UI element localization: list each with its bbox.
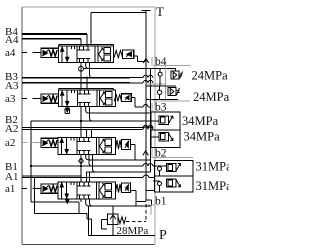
wire T feed V4 bbox=[90, 13, 92, 45]
block boundary left/bottom bbox=[22, 7, 155, 245]
wire pilot dashed main relief bbox=[145, 204, 147, 222]
svg-text:24MPa: 24MPa bbox=[193, 90, 229, 104]
valve V1 position-1 arrows bbox=[60, 182, 74, 199]
wire A2 double bbox=[22, 128, 143, 130]
wire B3 hops over T and P bbox=[143, 75, 153, 77]
node T arrow up bbox=[143, 59, 149, 64]
svg-text:24MPa: 24MPa bbox=[192, 68, 229, 82]
svg-text:a1: a1 bbox=[5, 183, 15, 195]
wire P port line bbox=[89, 235, 155, 237]
wire elbow V2 drain 1 bbox=[86, 155, 89, 160]
wire b1 hook bbox=[146, 200, 152, 206]
svg-text:b1: b1 bbox=[155, 195, 167, 207]
wire B4 bbox=[22, 33, 87, 35]
wire relief RV1b feed bbox=[153, 180, 160, 182]
svg-text:A1: A1 bbox=[5, 171, 18, 183]
wire bottom link 1 bbox=[31, 202, 79, 213]
junction dot A3 bbox=[80, 82, 82, 84]
wire bottom link 2 bbox=[35, 213, 92, 235]
valve V3 position-3 paths bbox=[100, 91, 113, 106]
wire tank elbow bbox=[136, 201, 146, 203]
wire a1 pilot dashed bbox=[22, 187, 41, 189]
valve V2 position-3 paths bbox=[99, 138, 112, 154]
valve V4 position-3 paths bbox=[98, 47, 111, 62]
svg-text:a4: a4 bbox=[5, 47, 16, 59]
wire elbow V2 drain 2 bbox=[89, 155, 92, 167]
svg-text:34MPa: 34MPa bbox=[184, 130, 221, 144]
wire A2 hops bbox=[143, 125, 153, 127]
wire B3 drop bbox=[86, 78, 88, 91]
valve V1 body bbox=[58, 182, 116, 199]
wire V1 cap step down bbox=[131, 191, 136, 207]
svg-text:34MPa: 34MPa bbox=[182, 114, 219, 128]
wire bus stubs to V1 bbox=[86, 172, 89, 182]
wire B1 bbox=[31, 165, 167, 167]
wire bridge V3 bbox=[59, 89, 114, 91]
spring V2 bbox=[116, 140, 122, 149]
wire A1 double bbox=[22, 176, 155, 178]
wire tank branch b1 bbox=[146, 190, 154, 192]
drain arrow V3 bbox=[65, 106, 70, 113]
wire bus S3 bbox=[89, 112, 151, 114]
casing below b1 bbox=[148, 205, 155, 215]
drain arrow V1 bbox=[66, 199, 69, 203]
wire A1 hop over T bbox=[143, 175, 149, 177]
valve V2 body bbox=[58, 138, 116, 155]
node junction circle A4 gallery bbox=[79, 66, 84, 71]
wire V3 cap step to P bbox=[131, 98, 150, 107]
svg-text:31MPa: 31MPa bbox=[196, 179, 230, 193]
block boundary top/right bbox=[22, 7, 155, 245]
node diamond junction bbox=[79, 158, 84, 164]
wire main relief feed bbox=[112, 206, 114, 236]
valve V4 position-2 blocked ports bbox=[77, 46, 90, 62]
node T gallery box bbox=[91, 13, 146, 45]
relief valve RV4b 24MPa bbox=[146, 86, 180, 100]
junction dot B3 bbox=[80, 77, 82, 79]
wire a3 pilot dashed bbox=[22, 97, 41, 99]
pilot valve a2 bbox=[41, 138, 58, 147]
wire elbow V4 drain 2 bbox=[90, 62, 93, 77]
wire B1 hops bbox=[143, 164, 153, 166]
spring V4 bbox=[114, 51, 123, 58]
valve V3 position-2 blocked ports bbox=[78, 90, 91, 106]
pilot valve a4 bbox=[41, 48, 59, 57]
svg-text:A2: A2 bbox=[5, 123, 18, 135]
wire elbow V3 drain 2 bbox=[90, 106, 93, 121]
wire A gallery S4-S3 bbox=[80, 62, 82, 90]
wire pump line P bbox=[149, 69, 151, 173]
valve V1 position-2 blocked ports bbox=[78, 182, 91, 199]
casing stub b4 bbox=[151, 57, 153, 65]
wire a2 pilot dashed bbox=[22, 142, 41, 144]
svg-text:31MPa: 31MPa bbox=[196, 160, 230, 174]
solenoid cap b2 bbox=[122, 140, 131, 150]
solenoid cap b4 bbox=[123, 50, 134, 59]
wire B3 bbox=[22, 77, 130, 79]
wire A2 stubs to V2 bbox=[87, 129, 92, 137]
svg-text:a3: a3 bbox=[5, 93, 16, 105]
node T arrow up 2 bbox=[143, 151, 149, 156]
wire bridge V4 bbox=[59, 45, 114, 47]
wire A4 bbox=[22, 38, 81, 40]
spring V1 bbox=[116, 184, 122, 193]
valve V3 position-1 arrows bbox=[61, 90, 75, 106]
casing stub b3 bbox=[151, 103, 153, 112]
pilot valve a3 bbox=[41, 94, 59, 103]
relief group box 34MPa bbox=[151, 112, 180, 148]
valve V2 position-1 arrows bbox=[60, 138, 74, 155]
wire tank line T bbox=[145, 13, 147, 202]
relief valve RV2a 34MPa bbox=[151, 116, 173, 124]
wire bottom feed rail bbox=[89, 206, 152, 236]
svg-text:A4: A4 bbox=[5, 34, 19, 46]
relief valve main 28MPa bbox=[102, 214, 127, 229]
wire elbow V3 drain 1 bbox=[86, 106, 89, 113]
wire bus drop to bottom bbox=[31, 166, 35, 213]
wire A3 bbox=[22, 82, 130, 84]
relief valve RV1b 31MPa bbox=[158, 179, 181, 192]
valve V2 position-2 blocked ports bbox=[78, 138, 91, 155]
solenoid cap b3 bbox=[122, 94, 132, 102]
relief valve RV1a 31MPa bbox=[158, 163, 181, 176]
wire a4 pilot dashed bbox=[22, 52, 41, 54]
wire relief rail b4 bbox=[83, 68, 175, 70]
wire V1 drain elbows bbox=[80, 199, 82, 202]
valve V3 body bbox=[59, 90, 116, 106]
wire bus S1 bbox=[86, 171, 150, 173]
svg-text:a2: a2 bbox=[5, 137, 15, 149]
spring V3 bbox=[114, 94, 121, 101]
valve V4 position-1 arrows bbox=[61, 46, 75, 62]
valve V1 position-3 paths bbox=[99, 183, 112, 199]
svg-text:A3: A3 bbox=[5, 80, 19, 92]
wire rail S2 drain bbox=[89, 159, 151, 161]
relief group box 31MPa bbox=[154, 160, 193, 192]
solenoid cap b1 bbox=[122, 183, 131, 193]
wire V2 cap step bbox=[131, 145, 135, 160]
wire V4 cap connector bbox=[134, 56, 146, 62]
wire A gallery S3-S2 bbox=[80, 106, 82, 137]
pilot valve a1 bbox=[41, 184, 58, 193]
wire elbow V2 drain 3 bbox=[93, 155, 96, 173]
wire B2 bbox=[31, 121, 151, 166]
wire A gallery S2-S1 bbox=[80, 155, 82, 183]
svg-text:P: P bbox=[159, 228, 167, 243]
relief valve RV4a 24MPa bbox=[158, 69, 182, 86]
casing lines section 4 bbox=[145, 65, 190, 101]
casing line b2 bbox=[152, 148, 193, 157]
valve V4 body bbox=[59, 46, 114, 62]
relief valve RV2b 34MPa bbox=[151, 132, 173, 140]
wire elbow V4 drain 1 bbox=[86, 62, 89, 68]
svg-text:T: T bbox=[156, 4, 164, 19]
wire A3 hops over T and P bbox=[143, 80, 153, 82]
